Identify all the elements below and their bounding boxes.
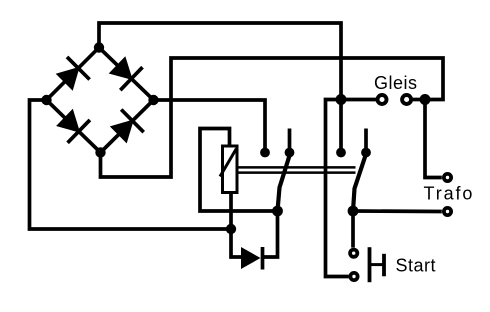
- diode D2 triangle: [109, 56, 133, 80]
- pushbutton Start symbol: actuator long bar: [368, 247, 372, 282]
- switch S1 arm: [278, 154, 291, 211]
- pushbutton Start symbol: contact short bar: [382, 254, 386, 276]
- wire: Gleis right terminal to corner (dot to right corner): [413, 98, 425, 102]
- terminal Trafo 2: [444, 208, 451, 215]
- switch S2 common contact: [348, 206, 359, 217]
- switch S1 right contact: [285, 148, 295, 158]
- diode D5 cathode wire up to switch S1 common contact: [263, 211, 278, 257]
- junction A (pot bottom / bridge minus): [226, 224, 236, 234]
- svg-text:Gleis: Gleis: [374, 73, 418, 93]
- switch S2 arm: [353, 154, 366, 211]
- wire: switch S2 common right to Trafo lower terminal: [353, 209, 442, 213]
- bridge node bottom: [95, 147, 105, 157]
- wire: switch S2 common down to Start upper terminal: [351, 211, 355, 248]
- diode D4 triangle: [110, 119, 134, 143]
- junction Gleis feed: [336, 94, 347, 105]
- wire: bridge right node right then down to switch S1 left contact: [154, 100, 266, 153]
- wire: switch S2 left contact up to Gleis junction: [339, 100, 343, 153]
- junction Gleis right / Trafo: [420, 94, 431, 105]
- mechanical linkage bar lower line: [237, 171, 356, 174]
- svg-text:Start: Start: [396, 255, 437, 275]
- potentiometer P1 wiper diagonal: [220, 149, 236, 177]
- wire: Gleis feed line with corner down to Start button lower terminal: [326, 100, 377, 277]
- bridge node left: [41, 95, 51, 105]
- potentiometer P1 top lead and link wire to switch S1 common: [200, 129, 278, 212]
- potentiometer P1 body: [223, 146, 238, 193]
- diode D1 triangle: [56, 67, 80, 91]
- switch S1 left contact: [260, 148, 270, 158]
- wire: Gleis-right dot down then right to Trafo upper terminal: [425, 100, 442, 178]
- bridge node top: [94, 42, 104, 52]
- diode D3 triangle: [56, 109, 80, 133]
- pushbutton Start symbol: connector: [370, 263, 385, 266]
- terminal Gleis 1: [378, 95, 387, 104]
- terminal Gleis 2: [402, 95, 411, 104]
- bridge rectifier diamond wires: [47, 48, 154, 153]
- wire: bridge bottom node down, right, up and across (y=58) to right corner down to Gleis-right dot: [101, 58, 444, 177]
- diode D1 (left-top edge, cathode to top node) bar: [67, 57, 90, 80]
- diode D3 (left-bottom edge, cathode to bottom node) bar: [68, 120, 90, 143]
- terminal Start upper: [350, 250, 357, 257]
- switch S2 left contact: [336, 148, 346, 158]
- svg-text:Trafo: Trafo: [424, 184, 475, 204]
- diode D2 (top-right edge, cathode to right node) bar: [120, 67, 142, 90]
- wire: bridge top node up and across to Gleis junction: [99, 23, 341, 100]
- mechanical linkage bar upper line: [237, 166, 356, 169]
- diode D4 (bottom-right edge, cathode to right node) bar: [121, 110, 144, 133]
- switch S2 unused throw stub: [364, 129, 368, 153]
- diode D5 triangle: [241, 247, 261, 269]
- wire: bridge left node left, down, and across bottom to junction A: [30, 100, 232, 229]
- terminal Trafo 1: [444, 174, 451, 181]
- bridge node right: [148, 95, 158, 105]
- terminal Start lower: [350, 273, 357, 280]
- switch S1 unused throw stub: [288, 129, 292, 153]
- diode D5 cathode bar: [261, 247, 265, 270]
- switch S1 common contact: [272, 206, 283, 217]
- potentiometer P1 bottom lead down through junction A to diode D5 anode: [231, 193, 241, 258]
- switch S2 right contact: [361, 148, 371, 158]
